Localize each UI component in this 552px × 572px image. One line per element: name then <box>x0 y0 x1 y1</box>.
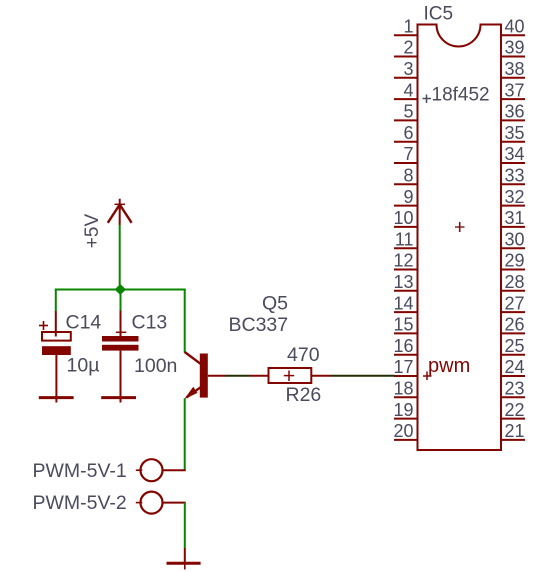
svg-text:10: 10 <box>393 208 413 228</box>
svg-text:36: 36 <box>505 102 525 122</box>
svg-text:11: 11 <box>395 229 414 249</box>
svg-text:6: 6 <box>403 123 413 143</box>
svg-text:27: 27 <box>505 293 525 313</box>
svg-text:19: 19 <box>393 400 413 420</box>
svg-text:18f452: 18f452 <box>432 85 490 106</box>
svg-text:10µ: 10µ <box>67 355 100 377</box>
svg-text:21: 21 <box>505 421 525 441</box>
svg-text:R26: R26 <box>286 384 322 406</box>
svg-text:17: 17 <box>393 357 413 377</box>
svg-text:28: 28 <box>505 272 525 292</box>
svg-text:33: 33 <box>505 166 525 186</box>
svg-text:C14: C14 <box>66 312 102 334</box>
svg-text:7: 7 <box>403 144 413 164</box>
svg-text:29: 29 <box>505 251 525 271</box>
svg-text:100n: 100n <box>134 355 177 377</box>
svg-text:14: 14 <box>393 293 413 313</box>
svg-text:pwm: pwm <box>428 355 470 377</box>
svg-text:22: 22 <box>505 400 525 420</box>
svg-text:8: 8 <box>403 166 413 186</box>
svg-text:9: 9 <box>403 187 413 207</box>
svg-text:2: 2 <box>403 38 413 58</box>
svg-text:37: 37 <box>505 80 525 100</box>
svg-text:BC337: BC337 <box>229 314 289 336</box>
svg-text:40: 40 <box>505 16 525 36</box>
svg-text:Q5: Q5 <box>262 293 288 315</box>
svg-text:34: 34 <box>505 144 525 164</box>
svg-text:1: 1 <box>403 16 413 36</box>
svg-text:31: 31 <box>505 208 525 228</box>
svg-text:30: 30 <box>505 229 525 249</box>
svg-text:12: 12 <box>393 251 413 271</box>
svg-text:16: 16 <box>393 336 413 356</box>
svg-text:470: 470 <box>287 344 320 366</box>
svg-text:13: 13 <box>393 272 413 292</box>
svg-text:PWM-5V-1: PWM-5V-1 <box>33 460 127 482</box>
svg-text:26: 26 <box>505 315 525 335</box>
svg-text:39: 39 <box>505 38 525 58</box>
svg-text:IC5: IC5 <box>424 4 454 25</box>
svg-text:20: 20 <box>393 421 413 441</box>
svg-text:4: 4 <box>403 80 413 100</box>
svg-text:+5V: +5V <box>82 214 103 249</box>
svg-text:23: 23 <box>505 379 525 399</box>
svg-text:PWM-5V-2: PWM-5V-2 <box>33 492 127 514</box>
svg-text:38: 38 <box>505 59 525 79</box>
svg-text:C13: C13 <box>132 312 168 334</box>
svg-text:3: 3 <box>403 59 413 79</box>
svg-text:35: 35 <box>505 123 525 143</box>
svg-text:24: 24 <box>505 357 525 377</box>
svg-text:15: 15 <box>393 315 413 335</box>
svg-text:25: 25 <box>505 336 525 356</box>
svg-text:32: 32 <box>505 187 525 207</box>
svg-text:5: 5 <box>403 102 413 122</box>
svg-text:18: 18 <box>393 379 413 399</box>
